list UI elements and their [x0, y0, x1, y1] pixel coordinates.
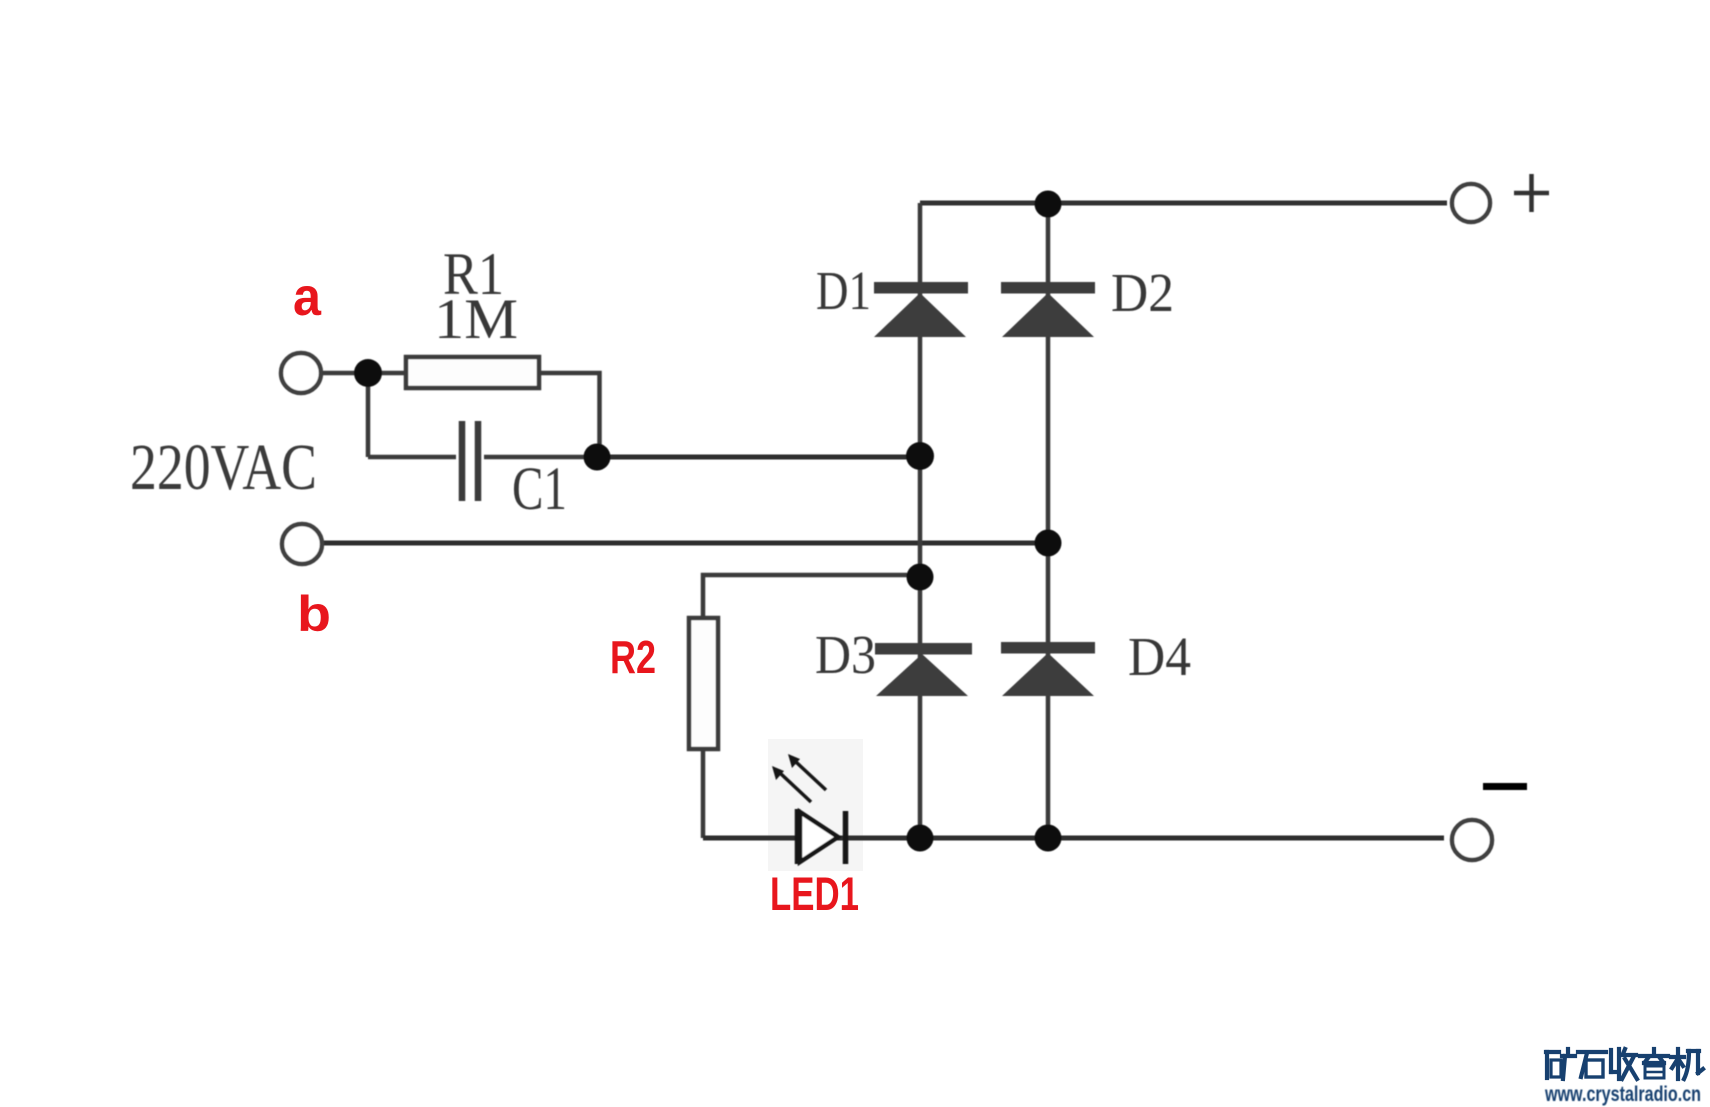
wire to C1 left plate [368, 455, 456, 460]
svg-text:1M: 1M [434, 288, 518, 351]
terminal minus [1452, 820, 1492, 860]
svg-text:D1: D1 [816, 260, 871, 321]
svg-text:C1: C1 [512, 456, 567, 523]
wire R2 top to D1-D3 branch [703, 575, 920, 618]
wire C1 node to D1-D3 branch [597, 455, 920, 460]
svg-text:D2: D2 [1111, 262, 1174, 323]
wire top rail to plus terminal [920, 201, 1447, 206]
wire node-a down to C1 row [366, 373, 371, 457]
minus sign [1483, 783, 1527, 790]
svg-text:R2: R2 [610, 631, 656, 683]
faint scan background behind LED [768, 739, 863, 871]
svg-text:D3: D3 [815, 624, 876, 685]
glyph ji [1671, 1049, 1703, 1079]
resistor R1 [406, 357, 539, 388]
wire right bridge branch [1046, 203, 1051, 839]
glyph kuang [1546, 1049, 1575, 1079]
svg-text:220VAC: 220VAC [130, 431, 317, 504]
glyph shou [1611, 1049, 1637, 1079]
diode D1 [874, 282, 968, 337]
LED arrow 1 [796, 762, 826, 790]
svg-text:D4: D4 [1128, 626, 1191, 687]
wire left bridge branch [918, 203, 923, 838]
wire R2 bottom lead [701, 749, 706, 838]
svg-text:b: b [297, 586, 331, 642]
glyph yin [1640, 1049, 1668, 1078]
wire a-terminal to R1 [323, 371, 406, 376]
glyph shi [1578, 1052, 1606, 1077]
wire R1 right lead down [539, 373, 600, 457]
watermark logo 矿石收音机 [1546, 1049, 1703, 1079]
diode D4 [1001, 642, 1095, 696]
LED arrow 2 [780, 773, 811, 802]
LED LED1 symbol [772, 754, 846, 864]
resistor R2 [689, 618, 718, 749]
wire b to D2-D4 branch [324, 541, 1048, 546]
svg-text:www.crystalradio.cn: www.crystalradio.cn [1544, 1082, 1701, 1106]
wire C1 right plate to bridge node [484, 455, 600, 460]
terminal plus [1452, 184, 1490, 222]
diode D2 [1001, 282, 1095, 337]
terminal b [282, 524, 322, 564]
junction node dots [354, 191, 1062, 852]
svg-text:a: a [293, 267, 322, 327]
plus sign [1514, 174, 1549, 212]
terminal a [281, 353, 321, 393]
capacitor C1 [462, 421, 478, 501]
svg-text:LED1: LED1 [770, 867, 859, 920]
diode D3 [875, 643, 972, 696]
wire bottom rail to minus terminal [703, 836, 1444, 841]
